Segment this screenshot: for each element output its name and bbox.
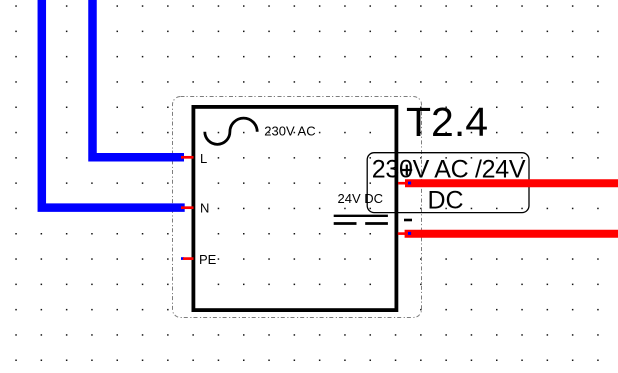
- svg-text:T2.4: T2.4: [406, 99, 488, 145]
- svg-text:PE: PE: [199, 252, 217, 267]
- svg-text:24V DC: 24V DC: [338, 191, 384, 206]
- pin - mark: [404, 219, 412, 222]
- label box 230V AC /24V DC: [367, 153, 529, 213]
- svg-text:N: N: [200, 201, 209, 216]
- AC sine symbol: [205, 118, 257, 144]
- svg-text:DC: DC: [427, 187, 463, 215]
- pin - stub: [398, 232, 406, 235]
- wire (blue, phase to pin L): [93, 0, 185, 157]
- pin + mark: [402, 169, 413, 171]
- component outline (dash-dot selection boundary): [173, 97, 422, 318]
- svg-text:230V AC: 230V AC: [264, 124, 315, 139]
- pin PE node marker: [181, 257, 184, 260]
- power supply T2.4 box: [193, 107, 396, 310]
- pin L stub: [181, 156, 194, 159]
- wire (red, 0V output): [405, 230, 618, 238]
- svg-text:L: L: [200, 151, 207, 166]
- pin N stub: [181, 206, 194, 209]
- node marker on 0V wire: [408, 232, 411, 235]
- DC symbol: [334, 215, 388, 217]
- node marker on +24V wire: [408, 182, 411, 185]
- pin PE stub: [183, 257, 194, 260]
- wire (blue, neutral to pin N): [42, 0, 185, 208]
- wire (red, +24V output): [405, 179, 618, 187]
- pin + stub: [398, 182, 406, 185]
